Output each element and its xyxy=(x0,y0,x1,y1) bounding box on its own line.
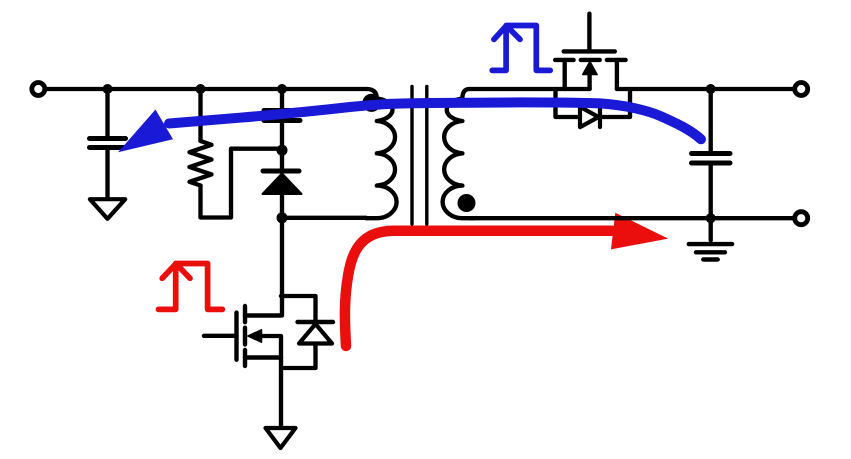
blue gate pulse arrow barbs xyxy=(494,26,520,40)
capacitor Cout top plate xyxy=(692,151,731,156)
capacitor C clamp bottom plate xyxy=(264,118,300,123)
transformer T1 secondary polarity dot xyxy=(458,194,476,212)
wire: input cap branch xyxy=(105,89,109,136)
body diode D2 cathode bar xyxy=(598,107,602,127)
wire: secondary bottom rail xyxy=(470,216,795,220)
wire: secondary top lead to sync FET xyxy=(469,87,565,91)
wire: bottom FET drain lead xyxy=(280,218,284,316)
wire: output cap bottom lead xyxy=(709,166,713,219)
transformer T1 primary winding xyxy=(366,89,397,218)
input terminal xyxy=(32,83,45,96)
diode D clamp cathode bar xyxy=(263,169,299,174)
output junction bottom dot xyxy=(706,213,716,223)
wire: clamp cap top lead xyxy=(280,89,284,108)
earth ground bar 2 xyxy=(696,250,725,254)
wire: source down to ground xyxy=(279,358,283,429)
transformer T1 secondary winding xyxy=(443,89,474,218)
wire: body diode loop right xyxy=(600,89,630,117)
body diode D2 (open, pointing right) xyxy=(580,107,599,127)
MOSFET Q1 gate lead xyxy=(204,334,237,338)
wire: bottom node to transformer primary xyxy=(282,216,366,220)
wire: clamp resistor top lead xyxy=(198,89,202,141)
wire: output cap top lead xyxy=(709,89,713,151)
MOSFET Q1 substrate wire xyxy=(261,336,281,358)
capacitor Cin top plate xyxy=(90,136,126,141)
capacitor Cin bottom plate xyxy=(90,145,126,150)
blue current arrowhead xyxy=(118,110,173,153)
wire: top rail left xyxy=(45,87,367,91)
wire: body diode bottom branch xyxy=(281,344,316,369)
capacitor C clamp top plate xyxy=(264,108,300,113)
MOSFET Q1 source contact xyxy=(245,355,281,359)
blue current arrow shaft xyxy=(169,102,701,139)
node: primary bottom node dot xyxy=(277,212,288,223)
ground (input, triangle) xyxy=(90,199,125,219)
MOSFET Q1 gate bar xyxy=(234,313,238,360)
wire: diode anode to bottom node xyxy=(280,194,284,218)
transformer core line right xyxy=(425,87,428,225)
red gate pulse xyxy=(159,264,223,310)
red current arrowhead xyxy=(611,213,668,250)
node: rail junction at clamp xyxy=(277,84,287,94)
MOSFET Q1 channel segments xyxy=(243,306,247,366)
earth ground bar 3 xyxy=(703,257,717,261)
transformer core line left xyxy=(410,87,413,225)
body diode D1 (open, pointing up) xyxy=(299,324,332,344)
red gate pulse arrow barbs xyxy=(162,264,190,279)
body diode D1 cathode bar xyxy=(298,320,334,324)
sync MOSFET Q2 gate bar xyxy=(564,49,615,53)
output junction top dot xyxy=(706,84,716,94)
resistor R clamp (zigzag) xyxy=(190,141,212,186)
wire: node to diode xyxy=(280,150,284,169)
sync MOSFET Q2 substrate lead xyxy=(587,70,591,89)
node: clamp node dot xyxy=(277,145,288,156)
MOSFET Q1 drain contact xyxy=(245,313,281,317)
sync MOSFET Q2 substrate arrow xyxy=(583,62,597,75)
sync MOSFET Q2 source lead xyxy=(563,60,567,89)
earth ground bar 1 xyxy=(689,242,732,246)
wire: sync FET source link xyxy=(565,87,590,91)
earth ground stem xyxy=(709,218,713,240)
wire: body diode loop left xyxy=(556,89,581,117)
wire: body diode top branch xyxy=(281,296,316,320)
sync MOSFET Q2 gate lead xyxy=(587,14,591,49)
sync MOSFET Q2 channel segments xyxy=(555,58,625,62)
sync MOSFET Q2 drain lead xyxy=(615,60,619,89)
output terminal top xyxy=(795,83,808,96)
wire: sync FET drain to output xyxy=(617,87,795,91)
red current arrow shaft xyxy=(345,231,612,346)
MOSFET Q1 substrate arrow xyxy=(248,330,262,342)
blue gate pulse xyxy=(492,26,550,71)
transformer T1 primary polarity dot xyxy=(362,94,380,112)
diode D clamp (filled, pointing up) xyxy=(263,174,302,195)
ground (FET source, triangle) xyxy=(266,428,296,448)
wire: resistor bottom loop xyxy=(201,149,278,218)
node: rail junction at Cin xyxy=(103,84,113,94)
output terminal bottom xyxy=(795,212,808,225)
capacitor Cout bottom plate xyxy=(692,161,731,166)
wire: Cin to ground xyxy=(105,150,109,199)
wire: clamp cap to node xyxy=(280,123,284,150)
node: rail junction at resistor xyxy=(196,84,206,94)
